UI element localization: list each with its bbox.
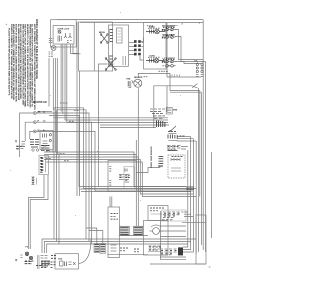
box P2 inner dashes — [43, 134, 52, 147]
box BL inner glyphs top — [111, 214, 119, 220]
wire tag specks mid-left — [60, 103, 79, 121]
bundle1 row F — [67, 44, 168, 123]
BR1 wires to right verticals — [182, 212, 206, 222]
wire notch pair d — [170, 91, 201, 93]
svg-text:DOOR LOCK: DOOR LOCK — [58, 29, 70, 31]
coil stack CS1 — [94, 244, 100, 253]
box C control housing — [109, 25, 129, 66]
wire box B drop — [79, 71, 81, 196]
right small component top — [196, 62, 203, 77]
right vertical v187 — [183, 150, 188, 247]
P1 wire labels — [38, 111, 47, 131]
conn8 left stubs — [129, 42, 134, 44]
svg-text:8101P554-60: 8101P554-60 — [33, 101, 48, 104]
BR2 darker marks — [161, 251, 177, 254]
box C lower glyphs — [123, 56, 126, 65]
pin3 wire left — [30, 131, 34, 139]
conn8 boxE link — [141, 38, 144, 42]
svg-text:BROIL: BROIL — [99, 32, 106, 34]
junction box glyphs — [60, 261, 76, 266]
relay column extra marks — [17, 146, 50, 184]
bundle1 row C to bundle3 — [49, 116, 186, 187]
wire box A drop 2 — [62, 44, 64, 114]
oven sensor body — [158, 157, 163, 168]
wire notch pair c — [170, 91, 200, 197]
junction arc feed — [90, 239, 92, 240]
element in box E lower — [146, 58, 165, 63]
bundle3 line 3 — [81, 191, 191, 193]
mid right cluster DC1 lower bars — [157, 121, 165, 128]
surface element row 3 — [163, 60, 176, 63]
small marks further left — [15, 140, 25, 146]
plug drop 3 — [55, 58, 57, 152]
wire motor companion — [135, 140, 137, 226]
bundle3 line 2 — [79, 188, 189, 190]
box H top section glyph row — [150, 208, 164, 214]
box B divider — [93, 22, 95, 71]
right mid cluster RM1 — [167, 146, 188, 151]
wire top bus line — [57, 19, 203, 21]
bundle1 row 1 — [54, 108, 196, 189]
plug connector left — [49, 39, 57, 57]
terminal block screws — [15, 252, 33, 264]
bundle1 row short — [38, 110, 52, 112]
JB cluster extra glyphs — [36, 256, 56, 268]
bundle1 row E — [65, 44, 168, 120]
dashed box right mid — [168, 155, 185, 178]
wire top bus line 2 — [80, 21, 203, 23]
JB cluster darker row — [25, 261, 50, 267]
bottom glyph row GR — [38, 255, 51, 269]
surface row wiring 2 — [175, 37, 206, 62]
right vertical v193 — [183, 139, 193, 252]
broil element upper — [100, 34, 108, 44]
box A inner liner — [53, 26, 74, 45]
connector P1 pin 2 — [33, 121, 36, 124]
bundle1 row D long — [53, 117, 168, 119]
BR zone vertical wire — [160, 211, 186, 259]
bundle1 right line 5 — [100, 127, 156, 129]
svg-text:PLACED IT MUST BE REPLACED WIT: PLACED IT MUST BE REPLACED WITH THE SAME… — [8, 28, 11, 96]
dark cluster left of box P2 — [30, 140, 39, 152]
right vertical v196 — [195, 141, 197, 254]
plug drop 4 — [56, 58, 58, 155]
scan speckles — [10, 12, 181, 247]
relay cluster top left — [16, 146, 50, 151]
junction box arc — [79, 240, 92, 264]
conn8 drop — [140, 56, 144, 60]
mid right vertical — [153, 86, 155, 129]
oven thermostat — [166, 108, 176, 132]
pin3 wire right — [36, 131, 193, 191]
buzzer bell — [150, 225, 163, 235]
relay block pin darker — [40, 158, 42, 173]
svg-text:W: W — [38, 130, 40, 132]
box G inner darker — [120, 175, 131, 180]
speckle bake element labels — [147, 26, 160, 57]
transformer T2 — [134, 226, 143, 235]
wire right vertical far — [211, 152, 213, 238]
dashed box glyph cluster — [172, 157, 183, 160]
surface element row 2 — [163, 36, 176, 39]
wire notch crossing a — [154, 86, 198, 88]
bake element in box E upper — [146, 29, 165, 34]
relay drop left b — [30, 175, 48, 249]
wire box A drop 1 — [60, 44, 62, 112]
svg-text:OVEN TEMP SENSOR: OVEN TEMP SENSOR — [151, 146, 153, 168]
wire right main vertical L1 — [202, 20, 204, 250]
svg-text:TOD: TOD — [58, 259, 63, 261]
wire broil element drop — [99, 64, 108, 187]
top right box bottom edge — [167, 76, 201, 78]
bundle2 line 1 — [44, 152, 186, 187]
top right glyph ticks — [170, 75, 180, 77]
T1 lower connector marks — [120, 248, 128, 251]
speckle labels row1 surface — [163, 28, 175, 60]
wire notch crossing b — [192, 84, 197, 88]
wire long left vertical x77 — [76, 22, 78, 196]
vertical pair above box BL — [110, 197, 112, 208]
convergence junction dark — [186, 187, 194, 189]
wire fan motor down long — [137, 88, 139, 226]
bottom cross line 2 — [44, 242, 190, 254]
plug drop 2 — [52, 58, 54, 110]
bottom right cluster BR1 row1 — [162, 212, 184, 220]
box BRB bottom right — [196, 215, 206, 264]
T2 lower connector marks — [134, 249, 139, 252]
bundle2 left wire labels speckle — [46, 151, 69, 161]
fan motor — [134, 79, 142, 87]
bundle2 line 2 — [44, 155, 189, 190]
lock motor cluster in box A — [58, 30, 72, 42]
box G oven light box — [108, 161, 136, 192]
box C pin column upper — [110, 29, 113, 43]
right vertical v198 — [198, 88, 200, 252]
box A lock/latch unit outer — [51, 20, 77, 47]
corner tick bottom right — [209, 266, 211, 268]
surface element row 1 — [163, 28, 176, 31]
svg-text:FAN: FAN — [127, 78, 131, 81]
bundle2 line 5 — [46, 162, 196, 197]
coil stack CS2 — [100, 244, 106, 254]
bundle1 row 2 — [57, 110, 87, 239]
sensor staircase — [137, 166, 161, 173]
main wires — [20, 20, 212, 267]
bottom feed 2 — [56, 110, 58, 242]
surface row wiring 3 — [175, 62, 201, 64]
bottom feed 3 — [58, 152, 60, 244]
box P2 relay box — [40, 131, 53, 150]
bottom cross line 1 — [42, 239, 196, 253]
wire box A drop 3 — [71, 44, 79, 53]
mid right hookup — [166, 86, 168, 112]
bottom feed 1 — [53, 108, 55, 239]
mid right dense cluster DC1 — [150, 109, 165, 118]
box G inner cluster 2 — [124, 167, 135, 189]
svg-text:FAN MTR: FAN MTR — [134, 76, 143, 79]
box E bake element box — [144, 22, 167, 69]
connector P1 pin 1 — [33, 112, 36, 115]
dashed box inner ticks — [171, 158, 181, 171]
box C pin column lower — [110, 55, 113, 66]
plug drop 1 — [48, 58, 50, 107]
top right box left edge — [166, 23, 168, 77]
RM1 darker — [168, 147, 179, 150]
pin2 wire right — [36, 122, 91, 244]
wire fan motor feed top — [138, 74, 170, 91]
pin1 wire right — [36, 113, 89, 242]
wire box A drop 4 — [73, 44, 81, 54]
bundle1 right line 4 — [100, 124, 169, 126]
box G inner cluster 1 — [109, 167, 123, 186]
box H top section — [148, 206, 168, 221]
bottom right cluster BR2 — [160, 247, 183, 255]
box H buzzer box — [144, 221, 169, 256]
box JB junction box — [55, 254, 79, 269]
pin1 wire left — [20, 113, 34, 157]
boxes — [40, 20, 206, 269]
pin2 wire left — [25, 122, 33, 141]
BR1 darker marks — [164, 213, 180, 216]
relay side cluster — [32, 177, 37, 185]
box B oven cavity — [79, 22, 113, 71]
row left dark digits — [162, 29, 164, 63]
surface row wiring 1 — [175, 30, 203, 60]
fan motor capacitor cluster — [128, 80, 134, 88]
tiny label right of motor wire — [159, 70, 168, 72]
relay block DLB — [39, 156, 49, 175]
wire right vertical L2 — [200, 92, 202, 245]
connector block 8pin — [134, 40, 141, 55]
svg-text:+: + — [6, 22, 8, 26]
CS feed bends — [86, 228, 148, 255]
transformer T1 — [120, 226, 129, 235]
BR1 light box — [162, 210, 187, 221]
bundle2 line 4 — [44, 160, 194, 195]
conn8 right stubs — [142, 42, 144, 44]
thermostat lines — [177, 136, 191, 138]
surface element row 4 — [163, 65, 176, 68]
connector P1 pin 3 — [33, 130, 36, 133]
notes text block (rotated schematic legend) — [8, 19, 39, 110]
bottom cross line 3 — [47, 244, 188, 253]
tstat dark marks extra — [168, 132, 185, 137]
right vertical v190 — [183, 137, 191, 250]
row region top edge — [162, 24, 178, 26]
bundle2 line 3 — [44, 157, 191, 192]
thermostat lower dark marks — [168, 135, 177, 139]
wire right vertical L2b — [205, 62, 207, 253]
bottom line main — [150, 263, 206, 265]
relay drop left a — [29, 175, 45, 249]
bake element lower — [105, 58, 116, 71]
buzzer lower glyph row — [148, 246, 161, 252]
buzzer cluster darker — [149, 247, 161, 250]
box BL inner marks — [111, 245, 117, 251]
box C inner relay rect — [117, 28, 123, 43]
box BL tall narrow — [108, 207, 120, 258]
